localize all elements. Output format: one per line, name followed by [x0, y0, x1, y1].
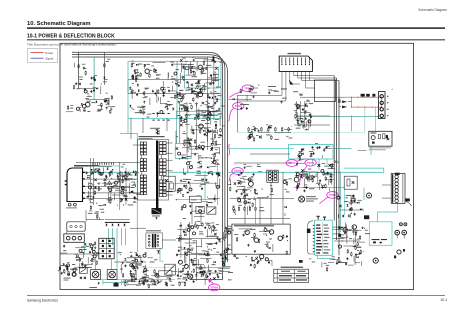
wire (bias row fill) [234, 213, 236, 215]
label (line in top) [97, 110, 101, 113]
transformer T801 label [139, 136, 165, 137]
wire teal corner [120, 133, 137, 236]
wire (tb1 extra) [160, 97, 162, 104]
transformer T801 core bar [156, 141, 158, 209]
capacitor (b2 dense) [202, 148, 204, 151]
wire (a1 margin) [74, 63, 76, 68]
capacitor (b2 final) [207, 129, 209, 132]
wire [333, 238, 344, 240]
label (ac inlet cluster) [73, 267, 77, 270]
T802 winding [274, 171, 277, 174]
hole [80, 225, 82, 227]
wire teal [255, 198, 257, 224]
wire teal [370, 146, 372, 155]
node (bottom strip) [191, 271, 192, 272]
wire teal stub [318, 159, 320, 170]
label (q area fill) [251, 176, 253, 179]
wire (board fill f4) [188, 251, 192, 253]
T801 primary winding turn [140, 149, 143, 152]
diode (c1 field) [104, 179, 106, 181]
capacitor (a1 fill) [79, 82, 81, 85]
wire [79, 87, 95, 89]
diode (b2 fill) [211, 106, 213, 108]
wire teal drop [93, 57, 95, 100]
jack pair [399, 223, 402, 226]
wire (drive box extra) [272, 244, 274, 252]
label (board fill f6) [214, 71, 216, 74]
wire [78, 52, 80, 89]
label (d2 final) [192, 264, 195, 267]
capacitor (d3 low) [336, 262, 338, 265]
wire [304, 101, 306, 126]
wire (d3 low) [360, 261, 362, 266]
resistor (b2 fill) [187, 137, 188, 142]
junction (red) [381, 97, 382, 98]
label (b3 wires) [304, 110, 308, 113]
label (d2 fill) [208, 243, 212, 246]
wire col [191, 202, 193, 224]
T801 secondary winding turn [159, 183, 162, 186]
fuse F801 [361, 94, 365, 97]
CN803 inner wall [402, 174, 404, 203]
resistor bias [255, 207, 256, 212]
diode (d1 fill) [76, 259, 78, 261]
label (tb1 extra) [212, 79, 217, 82]
node (c1 field) [96, 203, 97, 204]
label (d1b final) [132, 261, 134, 264]
diode (c3 low) [339, 205, 341, 207]
wire teal drop [125, 228, 127, 245]
wire (d3 extra) [359, 241, 365, 243]
label (below ic802) [312, 261, 315, 264]
label (c1 extra) [117, 172, 121, 175]
wire (c2 margin) [202, 201, 208, 203]
wire (b2 fill) [202, 157, 213, 159]
label (c2 final) [206, 181, 209, 184]
resistor (d2 fill) [207, 258, 208, 263]
diode (tb1 extra2) [184, 109, 186, 111]
label (c2 fill) [196, 170, 200, 173]
wire teal [229, 147, 295, 149]
node (c2 dense) [198, 171, 199, 172]
wire light cyan [374, 107, 376, 131]
resistor (tb1 extra) [135, 78, 136, 83]
label (d2 fill) [206, 224, 209, 227]
T801 primary winding turn [140, 165, 143, 168]
wire (cn802 below) [272, 90, 277, 92]
label (c1 fill) [108, 198, 112, 201]
wire (bstrip final) [203, 278, 206, 280]
label (b3 extra) [306, 100, 310, 103]
label (tb1 fill) [179, 95, 183, 98]
bridge diag [208, 208, 216, 214]
wire (d2 final) [181, 238, 192, 240]
wire [403, 235, 405, 239]
label (b2 final) [189, 102, 192, 105]
node (rail low) [165, 107, 166, 108]
label (rail low) [142, 105, 146, 108]
T801 primary winding turn [140, 142, 143, 145]
label (d1b extra) [138, 264, 142, 267]
wire (d3 extra) [353, 238, 355, 244]
label (b2 fill) [219, 133, 221, 136]
resistor (tb1 extra) [140, 109, 141, 114]
IC802 pin label [316, 228, 320, 229]
resistor (d2 extra) [188, 248, 189, 253]
resistor (c3 right) [352, 195, 353, 200]
test point TP03 [242, 85, 253, 92]
diode (b2 extra2) [203, 130, 205, 132]
diode (d1b final) [124, 258, 126, 260]
relay marks [371, 133, 377, 134]
T802 winding [268, 171, 271, 174]
label (d1 fill) [92, 254, 94, 257]
node (c2 dense) [180, 193, 181, 194]
IC802 pin label [316, 246, 322, 247]
wire (bottom strip fill) [148, 278, 152, 280]
wire row [60, 253, 98, 255]
T801 tap wire [133, 144, 140, 146]
label (bottom strip fill) [167, 277, 171, 280]
label (d2 fill) [228, 244, 231, 247]
label (d1b extra) [134, 257, 136, 260]
diode (tb3 parts) [310, 155, 312, 157]
label (d1b fill) [131, 262, 135, 265]
wire [382, 197, 391, 199]
diode (c2 fill) [198, 161, 200, 163]
resistor (d1 dense2) [136, 263, 137, 268]
wire [306, 87, 315, 89]
wire (c1 extra) [127, 178, 133, 180]
posistor box 2 [107, 270, 117, 280]
node (d1b fill) [120, 254, 121, 255]
wire (d1b extra) [143, 280, 147, 282]
label (a2 dense) [188, 88, 192, 91]
wire fanout [298, 77, 337, 79]
diode (c1 fill) [125, 198, 127, 200]
PC801 die [102, 250, 104, 252]
node (c1 final) [111, 184, 112, 185]
wire (q area fill) [253, 197, 255, 198]
varistor stub [362, 96, 364, 99]
part [403, 249, 405, 252]
label (c1 extra) [102, 171, 105, 174]
label (c3 fill) [310, 174, 313, 177]
PC801 die [109, 245, 111, 247]
diode DX [84, 277, 86, 279]
diode (d2 dense) [188, 225, 190, 227]
wire (b2 extra) [217, 130, 219, 135]
wire (a2 extra) [180, 63, 182, 73]
wire (d1b extra) [135, 263, 137, 275]
label (d2 final) [208, 269, 210, 272]
capacitor (a2 dense) [209, 82, 211, 85]
IC802 pin [313, 247, 315, 250]
wire (b2 extra2) [210, 113, 212, 125]
resistor (bottom strip) [165, 281, 166, 286]
label (board fill f5) [77, 87, 80, 90]
IC802 box [314, 220, 332, 255]
diode (rail132 fill) [269, 126, 271, 128]
connector pin 1 [281, 58, 283, 64]
wire (tb1 fill) [149, 98, 151, 105]
wire (board fill f4) [192, 259, 194, 264]
label (tb1 fill) [207, 105, 212, 108]
transformer T801 outline [138, 140, 169, 201]
ground (d2 extra) [216, 237, 218, 239]
wire (c1 extra) [88, 191, 90, 197]
resistor (b1 margin) [67, 105, 68, 110]
label [152, 215, 160, 218]
label (b2 extra2) [195, 102, 198, 105]
resistor (b1) [101, 103, 102, 108]
label (tb1 extra) [156, 77, 160, 80]
wire teal bend [318, 255, 331, 258]
wire [300, 96, 344, 98]
label (bottom strip fill) [136, 284, 141, 287]
IC802 pin [313, 231, 315, 234]
title underline bar [27, 27, 445, 28]
BD801 diode 4 [123, 224, 125, 226]
ground (a1 margin) [83, 67, 85, 69]
wire (c2 fill) [183, 168, 185, 174]
transistor (b3 wires) [297, 105, 300, 108]
label (b2 extra) [218, 112, 223, 115]
wire degauss feed (bright) [344, 168, 384, 173]
wire teal [136, 172, 138, 183]
resistor (under tb3) [299, 156, 300, 161]
jumper box [67, 222, 85, 231]
junction (red) [381, 107, 382, 108]
RL802 part [383, 134, 385, 139]
label (c3r fill) [357, 199, 361, 202]
label (c1 final) [124, 189, 127, 192]
schematic frame [60, 43, 414, 289]
TH803 cross [300, 197, 304, 201]
T801 primary winding turn [140, 159, 143, 162]
diode (b1 small) [105, 99, 107, 101]
label (d2 extra) [205, 254, 210, 257]
label (d2 extra2) [199, 268, 201, 271]
wire (bottom extra) [134, 276, 136, 282]
label [281, 88, 287, 91]
capacitor (d1b extra) [124, 264, 126, 267]
fuse table frame [274, 269, 309, 282]
transistor (c1 extra) [100, 172, 103, 175]
capacitor (tb1 extra2) [157, 112, 159, 115]
wire (c2 final) [217, 162, 219, 164]
wire (tb1 extra2) [161, 102, 168, 104]
resistor (tb1 extra2) [135, 75, 136, 80]
IC802 pin [313, 250, 315, 253]
label (c1 extra) [108, 172, 111, 175]
capacitor (tb1 fill) [178, 84, 180, 87]
diode (tb3 parts) [301, 149, 303, 151]
hole [70, 225, 72, 227]
label (b2 extra2) [215, 131, 217, 134]
label (below ic802) [326, 264, 329, 267]
node (c3 right) [351, 213, 352, 214]
wire (board fill f1) [205, 110, 216, 112]
capacitor (c1 field) [125, 178, 127, 181]
node (c1 field) [89, 199, 90, 200]
part above table [268, 261, 270, 264]
T801 primary link [141, 155, 143, 158]
label (c3 extra) [295, 171, 298, 174]
wire (d2 extra) [177, 229, 186, 231]
resistor (d1b fill) [132, 264, 133, 269]
IC802 pin label [323, 224, 328, 225]
wire (a2 fill) [204, 83, 206, 92]
label (a1 fill) [87, 110, 90, 113]
resistor (c1 fill) [110, 172, 111, 177]
label (tb1 extra2) [186, 107, 189, 110]
wire col [200, 213, 202, 224]
label (q area fill) [237, 179, 240, 182]
label (c3 extra) [316, 182, 321, 185]
label (c1 extra2) [133, 183, 136, 186]
capacitor (d2 extra) [204, 226, 206, 229]
capacitor (startup area2) [210, 74, 212, 77]
label (b1 margin) [70, 107, 74, 110]
transistor (c2 fill) [178, 188, 181, 191]
line filter T802 outline [146, 233, 163, 248]
mounting hole [74, 203, 77, 206]
resistor (d1 fill) [68, 271, 69, 276]
capacitor (startup area) [134, 72, 136, 75]
wire teal branch [176, 61, 178, 118]
label (c1 fill) [123, 174, 127, 177]
diode (c3 low) [360, 208, 362, 210]
diode (c3 fill) [313, 176, 315, 178]
capacitor (c2 margin) [206, 204, 208, 207]
label (c3 final) [331, 165, 335, 168]
label (drive box parts) [268, 229, 271, 232]
connector pin 4 [293, 58, 295, 64]
resistor (bottom extra) [184, 282, 185, 287]
label (d1b fill) [143, 279, 146, 282]
transistor (a1 fill) [84, 90, 87, 93]
label (b2 final) [181, 119, 184, 122]
T801 primary winding turn [144, 162, 147, 165]
transistor (d1b fill) [130, 264, 133, 267]
capacitor (drive box extra) [286, 235, 288, 238]
wire (c1 fill) [114, 193, 116, 200]
wire (tb1 final) [198, 109, 200, 117]
resistor (d1b fill) [132, 276, 133, 281]
degauss coil turn [395, 182, 398, 185]
mounting hole [68, 203, 71, 206]
wire teal [127, 118, 129, 133]
label (bstrip final) [146, 274, 149, 277]
ground (c1 extra) [131, 191, 133, 193]
resistor (c1 fill) [104, 182, 105, 187]
diode (d1 dense2) [138, 281, 140, 283]
label (tb1 extra2) [139, 110, 142, 113]
label (tb1 extra) [162, 88, 166, 91]
resistor (startup area2) [194, 71, 195, 76]
junction (red) [357, 97, 358, 98]
capacitor (d1 dense2) [130, 272, 132, 275]
capacitor (c3 parts) [319, 179, 321, 182]
label (d1b final) [132, 256, 136, 259]
wire [333, 233, 341, 235]
wire [334, 240, 360, 242]
resistor (c1 fill) [110, 199, 111, 204]
power rail box (teal) [128, 61, 221, 118]
label (rail132 extra) [256, 134, 259, 137]
label (b2 dense) [177, 114, 180, 117]
wire (a1 fill) [83, 107, 85, 112]
wire (b1 small) [97, 104, 102, 106]
resistor (a2 final) [207, 94, 208, 99]
node (c1 fill) [90, 201, 91, 202]
diode (b2 dense) [211, 143, 213, 145]
label (c1 extra2) [92, 187, 97, 190]
resistor (d1b fill) [143, 281, 144, 286]
wire [119, 162, 121, 210]
wire (board fill f2) [190, 145, 198, 147]
label (a1 margin) [82, 63, 85, 66]
capacitor (board fill f1) [212, 81, 214, 84]
switch box [79, 268, 87, 274]
ground (d1b extra) [130, 270, 132, 272]
capacitor (low mid d3) [345, 263, 347, 266]
posistor TH801 [92, 271, 99, 278]
node (below drive box) [257, 257, 258, 258]
resistor (d3 fill) [357, 242, 358, 247]
IC802 pin label [324, 249, 331, 250]
wire (b3 extra) [303, 127, 305, 130]
label (board fill f2) [215, 118, 219, 121]
resistor on rail [248, 127, 249, 132]
resistor (c2 final) [186, 185, 187, 190]
CN803 key bar [392, 174, 393, 203]
capacitor (rail132 fill) [259, 136, 261, 139]
wire (low mid d3) [354, 256, 356, 266]
label (b3 wires) [297, 117, 301, 120]
wire (tb1 extra2) [171, 86, 173, 91]
wire [237, 94, 282, 96]
node (line in top) [78, 107, 79, 108]
wire col [130, 118, 132, 139]
wire (d1 fill) [75, 247, 86, 249]
resistor (b2 extra) [213, 157, 214, 162]
wire (d2 fill) [208, 265, 210, 271]
resistor (drive box parts) [258, 239, 259, 244]
label (bstrip final) [141, 277, 144, 280]
capacitor (d2 dense) [215, 270, 217, 273]
wire (d2 fill) [196, 246, 202, 248]
resistor (c3 right) [354, 198, 355, 203]
ground (c3r fill) [349, 208, 351, 210]
node (c1 field) [134, 182, 135, 183]
diode (c3 extra) [296, 163, 298, 165]
label (c3 extra) [329, 176, 333, 179]
label (d3 fill) [365, 232, 370, 235]
wire (c1 final) [131, 181, 135, 183]
wire col [66, 231, 68, 234]
dark part [364, 215, 369, 219]
wire (bottom strip fill) [178, 281, 186, 283]
capacitor (cn802 below) [268, 91, 270, 94]
wire (a1 fill) [108, 106, 113, 108]
pointer (pink) [229, 174, 233, 182]
wire (board fill f3) [107, 192, 109, 203]
diode (a2 dense) [180, 59, 182, 61]
wire row [340, 209, 364, 211]
diode D809 [156, 132, 158, 134]
